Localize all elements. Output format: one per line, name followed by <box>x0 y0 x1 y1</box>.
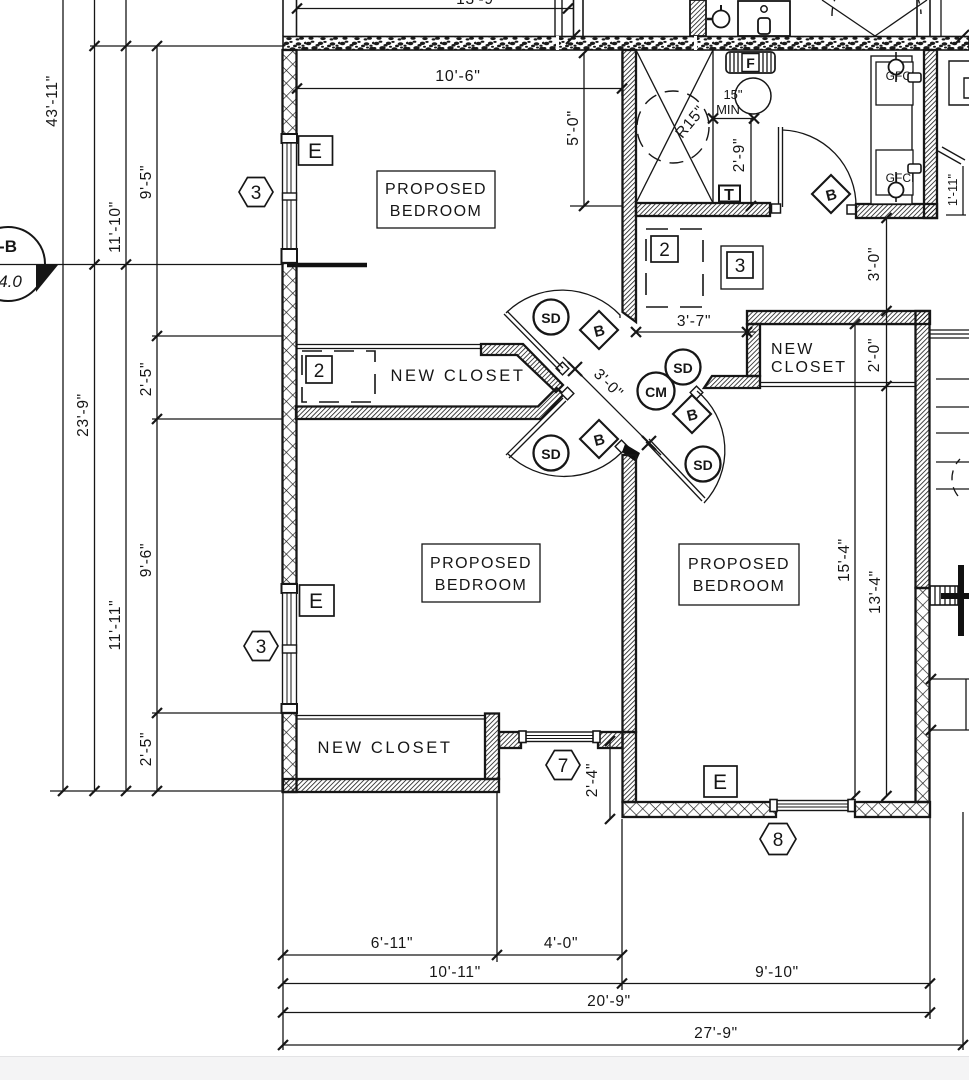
dimension row 6'-11" / 4'-0" <box>283 954 622 956</box>
bottom scan gray strip <box>0 1056 969 1080</box>
dimension 1'-11" right edge <box>962 166 964 215</box>
window E2 sill bottom <box>282 704 298 713</box>
svg-text:T: T <box>724 187 734 204</box>
bathroom door leaf <box>778 127 780 207</box>
svg-text:3: 3 <box>735 256 746 277</box>
hinge jamb square right closet <box>690 386 703 399</box>
shower dashed circle R15" <box>637 91 709 163</box>
closet interior top line <box>760 324 915 326</box>
svg-text:BEDROOM: BEDROOM <box>390 203 482 220</box>
bathroom east wall (hatched) <box>924 50 937 218</box>
dashed equipment rect near bathroom <box>646 229 703 307</box>
extension line x=622 <box>621 819 623 990</box>
right side beyond east wall <box>926 61 969 735</box>
left exterior wall segment A crosshatch <box>283 50 297 135</box>
tick marks left dims <box>58 41 162 796</box>
top strip: dimension line above band <box>283 0 941 36</box>
svg-text:13'-9": 13'-9" <box>456 0 500 8</box>
stair treads <box>936 378 969 380</box>
window E1 sill top <box>282 134 298 143</box>
shower right edge line <box>712 50 714 203</box>
svg-text:E: E <box>713 771 727 794</box>
svg-text:9'-6": 9'-6" <box>138 543 155 577</box>
smoke detector SD (right hall upper) <box>666 350 701 385</box>
bathroom door swing arc <box>783 130 857 207</box>
room label PROPOSED BEDROOM (lower-left) <box>422 544 540 602</box>
door swing arc right bedroom <box>697 391 725 503</box>
svg-text:CLOSET: CLOSET <box>771 359 847 376</box>
hatched wall above band x690-706 <box>690 0 706 36</box>
wall above band x555-562 <box>554 0 556 36</box>
svg-text:2: 2 <box>314 361 325 382</box>
svg-text:9'-10": 9'-10" <box>755 964 799 981</box>
svg-text:E: E <box>309 590 323 613</box>
sink above band <box>738 1 790 36</box>
svg-text:43'-11": 43'-11" <box>44 75 61 127</box>
vanity counter <box>871 56 912 204</box>
fan symbol F <box>726 52 775 73</box>
dimension line 11'-10"/11'-11" vertical <box>125 0 127 791</box>
tag 3 box (hall, double border) <box>721 246 763 289</box>
dimension 2'-0" closet <box>886 311 888 386</box>
middle wall lower segment (hatched) <box>623 732 637 802</box>
svg-text:11'-10": 11'-10" <box>107 201 124 253</box>
svg-text:2'-4": 2'-4" <box>584 763 601 797</box>
extension line y=791 bottom <box>50 790 283 792</box>
door swing arc lower-left bedroom <box>508 453 621 476</box>
svg-text:2'-0": 2'-0" <box>866 338 883 372</box>
tag 2 box (hall) <box>651 236 678 262</box>
svg-text:MIN: MIN <box>716 102 740 117</box>
svg-text:13'-4": 13'-4" <box>867 570 884 614</box>
closet south wall (hatched) <box>283 779 499 792</box>
smoke detector SD (top hall) <box>534 300 569 335</box>
window tag E1 box <box>299 136 333 165</box>
carbon monoxide CM circle <box>638 373 675 410</box>
door swing arc top bedroom <box>506 290 620 318</box>
dimension line 43'-11" vertical <box>62 0 64 791</box>
electric tag B diamond (top hall) <box>580 311 618 349</box>
window E1 glass <box>283 143 297 249</box>
diagonal leader at right edge <box>938 151 961 164</box>
wall above band x573-583 <box>573 0 575 36</box>
left exterior wall segment C crosshatch <box>283 713 297 792</box>
svg-text:SD: SD <box>541 446 560 462</box>
window 7 left stub wall (hatched) <box>499 732 521 748</box>
valve symbol <box>713 11 730 28</box>
room label PROPOSED BEDROOM (right) <box>679 544 799 605</box>
window hexagon tag 3 lower <box>244 632 278 661</box>
left exterior wall segment B crosshatch <box>283 263 297 584</box>
dimension line 23'-9" vertical <box>94 0 96 791</box>
extension line x=497 <box>496 792 498 962</box>
closet shelf double line <box>296 715 485 717</box>
closet dashed rect <box>302 351 375 402</box>
beam header block <box>930 586 958 605</box>
closet east wall (hatched) <box>485 714 499 780</box>
window hexagon tag 3 upper <box>239 178 273 207</box>
window tag E2 box <box>300 585 335 616</box>
section cut heavy line <box>287 263 367 268</box>
window 7 glass <box>521 732 598 742</box>
svg-text:15": 15" <box>723 87 742 102</box>
svg-text:3: 3 <box>251 183 262 204</box>
shelf rect right of bathroom <box>949 61 969 105</box>
section cut arrow (filled) <box>36 265 58 292</box>
black end cap lower wall <box>622 444 640 462</box>
svg-text:5'-0": 5'-0" <box>565 110 582 146</box>
svg-text:10'-11": 10'-11" <box>429 964 481 981</box>
svg-text:6'-11": 6'-11" <box>371 935 414 952</box>
smoke detector SD (right hall lower) <box>686 447 721 482</box>
hinge jamb square lower wall <box>615 440 628 453</box>
svg-text:-B: -B <box>0 237 17 256</box>
svg-text:3'-7": 3'-7" <box>677 313 711 330</box>
GFCI outlet 2 <box>895 172 897 202</box>
window tag E3 box <box>704 766 737 797</box>
svg-text:PROPOSED: PROPOSED <box>385 181 487 198</box>
wall above band at left x283-296 <box>282 0 284 36</box>
room label PROPOSED BEDROOM (top) <box>377 171 495 228</box>
window E1 sill bottom <box>282 249 298 263</box>
GFCI outlet 1 <box>895 52 897 82</box>
dimension 15" min line <box>713 118 754 120</box>
svg-text:2'-9": 2'-9" <box>731 138 748 172</box>
svg-text:8: 8 <box>773 830 784 851</box>
dimension 2'-4" <box>609 741 611 819</box>
window E3 glass <box>776 801 849 811</box>
dimension row 10'-11" / 9'-10" <box>283 983 930 985</box>
svg-text:20'-9": 20'-9" <box>587 993 631 1010</box>
closet west foot wall (hatched) <box>704 376 760 388</box>
dimension 10'-6" top bedroom <box>292 52 627 96</box>
window E2 sill top <box>282 584 298 593</box>
svg-text:E: E <box>308 140 322 163</box>
tag 2 box (closet) <box>306 356 332 383</box>
extension line y=713 <box>152 712 283 714</box>
dimension 3'-7" upper hall <box>636 331 756 333</box>
svg-text:3'-0": 3'-0" <box>866 247 883 281</box>
extension line y=46 <box>90 45 283 47</box>
window hexagon tag 8 <box>760 824 796 855</box>
beam cross bold <box>958 565 964 636</box>
svg-text:10'-6": 10'-6" <box>435 68 481 85</box>
window hexagon tag 7 <box>546 751 580 780</box>
svg-text:NEW CLOSET: NEW CLOSET <box>317 739 452 757</box>
svg-text:23'-9": 23'-9" <box>75 393 92 437</box>
svg-text:7: 7 <box>558 756 569 777</box>
svg-text:BEDROOM: BEDROOM <box>435 577 527 594</box>
dashed arc right edge <box>952 459 960 496</box>
wall above band right x917-930 <box>916 0 918 36</box>
window E2 glass <box>283 593 297 704</box>
extension line x=283 <box>282 792 284 1050</box>
svg-text:2: 2 <box>659 240 670 261</box>
dimension 15'-4" <box>854 324 856 796</box>
extension line x=930 <box>929 817 931 1019</box>
closet shelf double line <box>760 382 915 384</box>
east wall upper (hatched) <box>916 311 930 588</box>
existing top wall: speckled band <box>283 30 969 50</box>
svg-text:11'-11": 11'-11" <box>107 600 124 651</box>
extension line y=419 <box>152 418 283 420</box>
dimension 2'-9" <box>750 119 752 207</box>
section cut symbol -B / 4.0 at left edge <box>0 227 367 301</box>
bathroom west wall / hall wall upper (hatched) <box>623 50 637 322</box>
svg-text:F: F <box>746 55 755 71</box>
closet north wall (hatched) <box>747 311 930 324</box>
svg-text:NEW: NEW <box>771 341 814 358</box>
toilet tank circle <box>735 78 771 114</box>
svg-text:PROPOSED: PROPOSED <box>688 556 790 573</box>
svg-text:BEDROOM: BEDROOM <box>693 578 785 595</box>
tick on band left of x573 <box>566 30 580 44</box>
door leaf to lower-left bedroom <box>506 398 563 455</box>
closet north-east pointed wall (hatched) <box>481 344 563 392</box>
door leaf to right bedroom <box>646 442 702 501</box>
svg-text:4'-0": 4'-0" <box>544 935 578 952</box>
svg-text:SD: SD <box>693 457 712 473</box>
svg-text:PROPOSED: PROPOSED <box>430 555 532 572</box>
dimension 3'-0" diagonal hall <box>563 357 661 455</box>
shower X diagonals <box>636 50 713 203</box>
south wall east part (crosshatch) <box>855 802 930 817</box>
toilet tag T box <box>719 186 740 202</box>
south wall west part (crosshatch) <box>623 802 777 817</box>
closet south wall (hatched) <box>296 388 564 419</box>
shower above band with X <box>822 0 875 36</box>
svg-text:SD: SD <box>541 310 560 326</box>
closet west wall (hatched) <box>747 324 760 376</box>
stair tread lines top <box>930 329 969 331</box>
svg-text:NEW CLOSET: NEW CLOSET <box>390 367 525 385</box>
svg-text:1'-11": 1'-11" <box>945 174 960 207</box>
extension line y=336 <box>152 335 283 337</box>
svg-text:27'-9": 27'-9" <box>694 1025 738 1042</box>
bath electric tag B diamond <box>812 175 850 213</box>
right wall small dim lines <box>931 678 969 680</box>
door leaf to top bedroom <box>504 314 560 371</box>
electric tag B diamond (right hall) <box>673 395 711 433</box>
svg-text:3: 3 <box>256 637 267 658</box>
hinge jamb squares at closet point <box>556 362 569 375</box>
extension line x=963 <box>962 812 964 1050</box>
dimension 13'-4" <box>886 386 888 796</box>
svg-text:4.0: 4.0 <box>0 272 22 291</box>
closet shelf double line <box>296 344 481 346</box>
window 7 right stub wall (hatched) <box>598 732 623 748</box>
svg-text:9'-5": 9'-5" <box>138 165 155 199</box>
svg-text:SD: SD <box>673 360 692 376</box>
dimension 3'-0" right (vanity to closet) <box>886 218 888 311</box>
vanity sink 1 <box>876 62 913 105</box>
dimension row 20'-9" <box>283 1012 930 1014</box>
svg-text:CM: CM <box>645 384 667 400</box>
smoke detector SD (lower-left hall) <box>534 436 569 471</box>
svg-text:15'-4": 15'-4" <box>836 538 853 582</box>
dimension 5'-0" shower <box>565 48 623 211</box>
door jamb blocks <box>772 204 781 213</box>
east wall lower (crosshatch) <box>916 588 930 802</box>
svg-text:2'-5": 2'-5" <box>138 732 155 766</box>
bathroom south wall (hatched) <box>636 203 770 216</box>
dimension line 9'-5"/2'-5"/9'-6"/2'-5" vertical <box>156 46 158 791</box>
vanity sink 2 <box>876 150 913 195</box>
electric tag B diamond (lower-left hall) <box>580 420 618 458</box>
svg-text:2'-5": 2'-5" <box>138 362 155 396</box>
vanity south wall (hatched) <box>856 204 937 218</box>
dimension row 27'-9" <box>283 1044 963 1046</box>
middle wall between lower bedrooms (hatched) <box>623 455 637 732</box>
